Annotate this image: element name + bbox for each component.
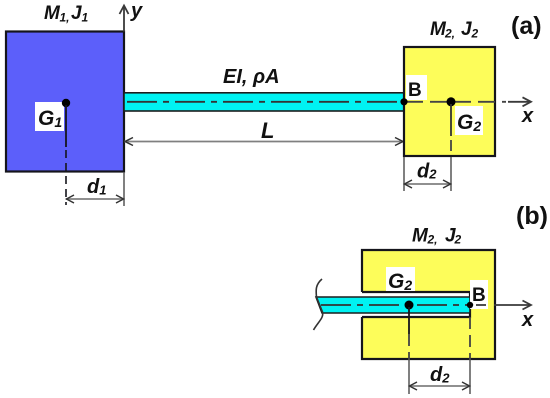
svg-text:(b): (b): [516, 202, 548, 230]
node B label box (part a): [406, 75, 427, 100]
dimension d2 (part b): [409, 382, 470, 390]
x axis (part b): [476, 304, 486, 306]
G2 centroid drop line (part a): [450, 104, 452, 136]
beam (part b): [316, 297, 470, 313]
x axis dashed through M2 (part a): [406, 101, 506, 103]
node B dot (part b): [467, 302, 473, 308]
dimension d2 (part a): [404, 180, 451, 188]
node G1 label box: [35, 102, 64, 131]
node G2 dot (part a): [447, 97, 456, 106]
svg-text:L: L: [261, 118, 274, 143]
node B label box (part b): [470, 280, 488, 309]
svg-text:x: x: [521, 309, 534, 331]
d2 extension line left (part a): [403, 157, 405, 191]
svg-text:y: y: [130, 0, 143, 22]
beam EI rhoA (part a): [124, 93, 404, 111]
beam centerline (part b): [321, 304, 468, 306]
G2 centroid drop line (part b): [408, 307, 410, 334]
mass M2 block (part a): [404, 47, 495, 156]
dimension d1: [66, 195, 124, 203]
node G2 label box (part a): [455, 106, 483, 135]
node G2 dot (part b): [405, 301, 414, 310]
svg-text:EI, ρA: EI, ρA: [223, 66, 280, 88]
node G2 label box (part b): [386, 267, 415, 291]
svg-text:B: B: [408, 80, 422, 101]
y axis: [120, 6, 129, 32]
svg-text:x: x: [521, 105, 534, 127]
dimension L: [124, 138, 404, 146]
B drop line (part b): [469, 317, 471, 359]
d1 extension line right: [123, 172, 125, 206]
G1 centroid drop line: [65, 105, 67, 147]
mass M1 block: [6, 32, 124, 172]
beam break symbol: [314, 279, 323, 330]
node G1 dot: [62, 99, 70, 107]
node B dot (part a): [400, 98, 407, 105]
beam centerline (part a): [127, 101, 403, 103]
svg-text:B: B: [472, 285, 486, 306]
mass M2 block with slot (part b): [361, 250, 495, 359]
svg-text:(a): (a): [511, 12, 542, 40]
